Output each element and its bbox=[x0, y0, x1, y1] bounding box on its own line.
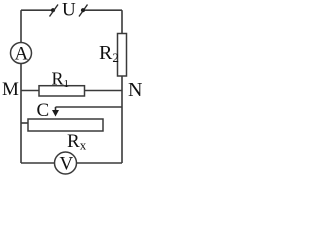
wire bbox=[85, 90, 123, 92]
wire bbox=[121, 76, 123, 163]
terminal slash left bbox=[50, 5, 59, 17]
svg-text:N: N bbox=[128, 79, 142, 101]
svg-text:C: C bbox=[37, 100, 50, 121]
wire bbox=[20, 10, 22, 42]
resistor R2 bbox=[99, 34, 127, 77]
wiper C arrow bbox=[37, 100, 60, 121]
svg-text:V: V bbox=[60, 154, 74, 175]
wire bbox=[21, 162, 55, 164]
terminal dot left bbox=[51, 8, 55, 12]
terminal dot right bbox=[81, 8, 85, 12]
wire bbox=[21, 9, 51, 11]
rheostat Rx bbox=[28, 119, 103, 153]
svg-text:U: U bbox=[62, 0, 76, 21]
wire bbox=[56, 106, 123, 108]
wire bbox=[85, 9, 122, 11]
svg-text:Rx: Rx bbox=[67, 131, 87, 153]
svg-text:R2: R2 bbox=[99, 42, 119, 65]
resistor R1 bbox=[39, 69, 85, 97]
terminal slash right bbox=[79, 5, 88, 17]
voltmeter V bbox=[55, 152, 77, 175]
svg-text:A: A bbox=[15, 44, 29, 65]
svg-text:M: M bbox=[2, 79, 19, 100]
ammeter A bbox=[11, 43, 32, 65]
wire bbox=[121, 10, 123, 33]
wire bbox=[77, 162, 123, 164]
wire bbox=[20, 64, 22, 164]
svg-text:R1: R1 bbox=[52, 69, 70, 91]
wire bbox=[21, 90, 39, 92]
wire bbox=[21, 122, 28, 124]
